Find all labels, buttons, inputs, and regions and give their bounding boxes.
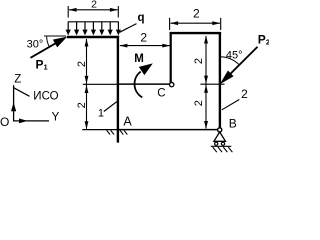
support B triangle bbox=[214, 132, 226, 141]
hinge C (circle) bbox=[170, 82, 174, 86]
svg-text:B: B bbox=[229, 117, 237, 131]
svg-text:M: M bbox=[134, 53, 144, 65]
support B hatching bbox=[213, 147, 233, 152]
support A (fixed, hatching) bbox=[107, 130, 128, 134]
svg-text:2: 2 bbox=[193, 6, 200, 20]
column 2 (right, to B) bbox=[219, 32, 221, 128]
label ISO with leader bbox=[14, 88, 59, 103]
extension line bottom-left bbox=[82, 129, 117, 131]
dimension 2 (vertical right, upper segment) bbox=[204, 36, 208, 130]
svg-text:2: 2 bbox=[91, 0, 97, 11]
dimension 2 (top-right, over portal beam) bbox=[170, 18, 221, 30]
member mid (to hinge C) bbox=[117, 83, 169, 85]
moment M (curved arrow) bbox=[135, 63, 153, 97]
label q with leader bbox=[120, 12, 145, 32]
svg-text:30°: 30° bbox=[27, 39, 44, 51]
svg-text:C: C bbox=[157, 87, 165, 99]
support B ground line bbox=[211, 145, 232, 147]
support B (roller): hinge circle bbox=[218, 128, 222, 132]
svg-text:Z: Z bbox=[14, 73, 21, 85]
svg-text:2: 2 bbox=[241, 87, 248, 101]
support B rollers bbox=[215, 142, 218, 145]
beam top-left (loaded beam) bbox=[67, 36, 119, 38]
svg-text:2: 2 bbox=[193, 58, 205, 64]
svg-text:q: q bbox=[137, 12, 144, 24]
svg-text:2: 2 bbox=[140, 30, 147, 44]
coordinate axis Y bbox=[13, 111, 60, 123]
svg-text:2: 2 bbox=[193, 100, 205, 106]
svg-text:O: O bbox=[0, 115, 9, 129]
label 2 with leader (right column) bbox=[222, 87, 248, 110]
dimension 2 (top-left, over distributed load) bbox=[68, 6, 118, 18]
force P1 (30 deg) bbox=[31, 36, 68, 58]
beam bottom (A to B) bbox=[117, 129, 218, 131]
svg-text:A: A bbox=[123, 115, 132, 129]
beam portal top bbox=[170, 32, 222, 34]
dimension 2 (horizontal mid) bbox=[119, 44, 170, 48]
svg-text:2: 2 bbox=[76, 102, 88, 108]
distributed load q (line + 7 arrows) bbox=[66, 22, 121, 36]
extension tick at P2 point bbox=[200, 83, 224, 85]
coordinate axis Z bbox=[11, 73, 21, 121]
force P2 (45 deg) bbox=[220, 47, 258, 85]
svg-text:ИСО: ИСО bbox=[33, 91, 58, 103]
dimension 2 (vertical left, upper segment) bbox=[85, 39, 89, 130]
svg-text:2: 2 bbox=[76, 61, 88, 67]
extension line mid-left bbox=[83, 83, 117, 85]
column portal left (to hinge C) bbox=[170, 32, 172, 82]
svg-text:45°: 45° bbox=[226, 50, 243, 62]
svg-text:1: 1 bbox=[98, 108, 104, 120]
svg-text:Y: Y bbox=[52, 111, 60, 123]
label 1 with leader bbox=[98, 102, 117, 120]
column 1 (left, A) bbox=[117, 36, 119, 143]
